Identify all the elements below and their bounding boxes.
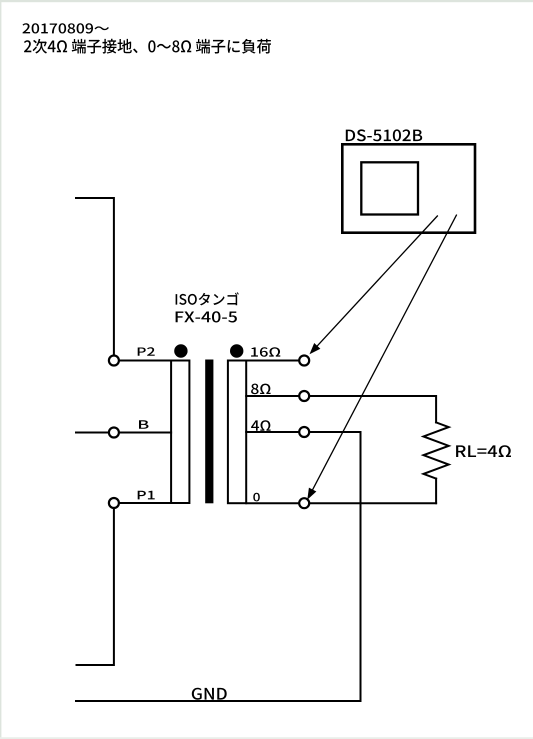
wire 8-ohm tap to load bbox=[246, 396, 436, 422]
wire 0 tap bbox=[246, 502, 436, 504]
terminal B bbox=[109, 428, 119, 438]
wire P2 to primary winding bbox=[114, 360, 171, 362]
label 16-ohm bbox=[251, 347, 280, 357]
probe arrow to 0 terminal bbox=[307, 215, 456, 500]
label B bbox=[139, 420, 148, 428]
label GND bbox=[192, 688, 227, 700]
wire GND bus bbox=[76, 700, 361, 702]
label P1 bbox=[138, 491, 155, 500]
terminal 8-ohm bbox=[299, 391, 309, 401]
label RL=4-ohm bbox=[456, 445, 511, 457]
wire P2 top stub bbox=[76, 198, 114, 361]
oscilloscope DS-5102B box bbox=[342, 144, 475, 232]
wire B left bbox=[76, 432, 114, 434]
transformer core bbox=[205, 360, 213, 504]
primary winding bbox=[171, 361, 189, 504]
wire B to primary winding bbox=[114, 432, 171, 434]
terminal 0 bbox=[299, 498, 309, 508]
primary phase dot bbox=[174, 344, 187, 357]
wire 4-ohm ground rail bbox=[360, 432, 362, 701]
wire RL bottom lead bbox=[435, 479, 437, 504]
terminal P1 bbox=[109, 498, 119, 508]
label P2 bbox=[138, 347, 155, 355]
oscilloscope label DS-5102B bbox=[346, 129, 422, 141]
terminal 16-ohm bbox=[299, 356, 309, 366]
secondary phase dot bbox=[230, 344, 243, 357]
resistor RL bbox=[424, 422, 449, 478]
terminal P2 bbox=[109, 356, 119, 366]
wire 16-ohm tap bbox=[246, 360, 304, 362]
secondary winding bbox=[228, 361, 246, 504]
label 4-ohm bbox=[251, 420, 270, 431]
probe arrow to 16-ohm terminal bbox=[310, 216, 438, 355]
title text 20170809~ bbox=[22, 23, 109, 33]
label 8-ohm bbox=[251, 384, 270, 395]
transformer label FX-40-5 bbox=[176, 311, 237, 322]
title text 2次4Ω端子接地、0~8Ω端子に負荷 bbox=[24, 39, 271, 54]
wire P1 bottom stub bbox=[77, 503, 114, 665]
transformer label ISOタンゴ bbox=[176, 292, 239, 305]
wire P1 to primary winding bbox=[114, 502, 171, 504]
label 0 bbox=[253, 493, 259, 502]
oscilloscope screen bbox=[361, 162, 418, 214]
wire 4-ohm tap bbox=[246, 431, 360, 433]
terminal 4-ohm bbox=[299, 427, 309, 437]
